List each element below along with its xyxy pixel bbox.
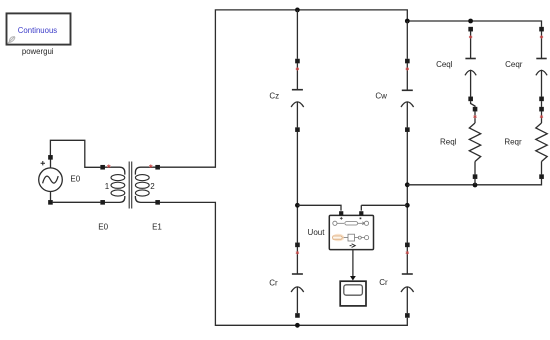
primary entry wire — [103, 167, 125, 174]
node load rail — [405, 182, 410, 187]
secondary top port — [155, 165, 160, 170]
capacitor Ceqr — [536, 31, 547, 96]
svg-text:Cz: Cz — [269, 92, 279, 101]
wire Cz bottom to Cr left top — [296, 132, 298, 243]
secondary dot polarity mark — [149, 164, 152, 168]
svg-text:E0: E0 — [98, 222, 108, 231]
svg-text:Continuous: Continuous — [18, 26, 58, 35]
node bottom rail / Cr left — [295, 323, 300, 328]
primary exit wire — [103, 196, 125, 202]
wire secondary bottom to bottom rail — [160, 202, 407, 325]
primary dot polarity mark — [107, 164, 110, 168]
svg-text:Reql: Reql — [440, 137, 457, 146]
svg-text:powergui: powergui — [22, 47, 54, 56]
svg-text:Cr: Cr — [269, 279, 278, 288]
AC source E0 — [39, 158, 63, 201]
wire Ceqr to Reqr — [541, 101, 543, 107]
node load rail / Reql — [473, 183, 478, 188]
output marker — [350, 244, 356, 248]
icon row 2: control chain with highlighted source — [332, 234, 344, 242]
node Uout left — [295, 203, 300, 208]
capacitor Cr (right) — [401, 247, 414, 313]
capacitor Ceql — [465, 31, 476, 96]
primary bottom port — [100, 200, 105, 205]
wire secondary top to top rail — [160, 10, 542, 167]
svg-text:Ceqr: Ceqr — [505, 60, 523, 69]
source plus sign — [41, 161, 45, 165]
node top rail / Cz — [295, 7, 300, 12]
secondary entry wire — [135, 167, 157, 174]
secondary bottom port — [155, 200, 160, 205]
signal arrowhead — [350, 276, 356, 281]
wire Uout left input — [297, 205, 341, 210]
capacitor Cr (left) — [291, 247, 304, 313]
resistor Reqr — [536, 111, 547, 174]
wire Cw bottom to Cr right top — [406, 132, 408, 243]
subsystem Uout — [329, 211, 373, 249]
svg-text:Cr: Cr — [379, 278, 388, 287]
capacitor Cw — [401, 63, 414, 127]
source bottom port — [48, 200, 53, 205]
source top port — [48, 155, 53, 160]
svg-text:Uout: Uout — [308, 228, 326, 237]
node top rail / Ceql — [468, 19, 473, 24]
svg-text:2: 2 — [150, 182, 155, 191]
wire source bottom to transformer primary bottom — [53, 201, 101, 203]
resistor Reql — [469, 111, 480, 174]
node top rail / Cw — [405, 19, 410, 24]
secondary winding loops — [135, 175, 149, 181]
svg-text:E0: E0 — [70, 175, 80, 184]
icon row 1: measurement chain — [333, 221, 369, 225]
powergui block — [7, 13, 71, 44]
scope block — [340, 281, 366, 306]
capacitor Cz — [291, 63, 304, 127]
primary winding loops — [111, 175, 125, 181]
transformer E0/E1 — [103, 162, 158, 209]
wire Uout right input — [361, 205, 407, 210]
wire Cz branch from top rail — [296, 10, 298, 59]
svg-text:E1: E1 — [152, 222, 162, 231]
svg-text:1: 1 — [105, 182, 110, 191]
wire Reql bottom to load rail — [474, 179, 476, 185]
secondary exit wire — [135, 196, 157, 202]
wire jog Ceql to Reql — [471, 101, 475, 107]
svg-text:Reqr: Reqr — [504, 137, 522, 146]
signal wire Uout to scope — [352, 250, 354, 276]
wire source top to transformer primary top — [50, 140, 100, 167]
svg-text:Ceql: Ceql — [436, 60, 453, 69]
core lines — [129, 162, 132, 209]
svg-text:Cw: Cw — [375, 92, 387, 101]
wire Cw branch — [406, 21, 408, 59]
node Uout right — [405, 203, 410, 208]
wire load rail to Reql/Reqr bottom — [407, 179, 541, 185]
primary top port — [100, 165, 105, 170]
